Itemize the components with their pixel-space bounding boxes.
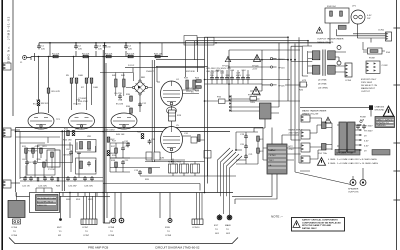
capacitor C29 bbox=[90, 176, 94, 181]
label right of box A lower bbox=[289, 146, 295, 151]
resistor R35 bbox=[126, 94, 132, 101]
svg-text:785V: 785V bbox=[250, 102, 256, 104]
svg-text:C31: C31 bbox=[184, 133, 189, 135]
svg-text:R11: R11 bbox=[22, 146, 27, 148]
safety note warning triangle bbox=[293, 221, 300, 228]
svg-text:22U: 22U bbox=[210, 75, 214, 77]
output transformer T1 bbox=[312, 50, 335, 76]
svg-text:MAINS INPUT: MAINS INPUT bbox=[361, 87, 376, 90]
svg-text:FS2 T500MA: FS2 T500MA bbox=[248, 94, 261, 97]
svg-text:C11: C11 bbox=[125, 160, 130, 162]
svg-text:R17: R17 bbox=[111, 146, 116, 148]
svg-text:V1A: V1A bbox=[36, 99, 41, 102]
svg-text:C6 22N: C6 22N bbox=[28, 162, 36, 164]
warning triangle OT bbox=[316, 27, 322, 33]
resistor R20 bbox=[145, 168, 151, 181]
outline box bus right bbox=[198, 37, 215, 45]
svg-text:FSW: FSW bbox=[165, 227, 171, 229]
svg-text:22N: 22N bbox=[160, 158, 164, 160]
electrolytic chain C20 bbox=[240, 144, 248, 149]
capacitor C28 bbox=[83, 176, 87, 181]
bottom brace bbox=[9, 238, 238, 244]
wire fuse feed vertical bbox=[329, 23, 331, 43]
resistor R25 bbox=[195, 86, 201, 93]
connector below hatched box bbox=[13, 219, 21, 224]
wire transformer primary feeds bbox=[310, 118, 322, 159]
svg-text:DWG No. : JTMD-61-02: DWG No. : JTMD-61-02 bbox=[7, 16, 11, 63]
wire cap stubs bbox=[212, 70, 248, 84]
svg-text:100K: 100K bbox=[78, 75, 84, 77]
resistor R39 bbox=[198, 135, 201, 142]
tube V1 ECC83 bbox=[28, 104, 54, 130]
svg-text:8 OHM : 1 x 8 OHM LOAD OR 2 x: 8 OHM : 1 x 8 OHM LOAD OR 2 x 16 OHM LOA… bbox=[328, 162, 379, 165]
tube V4 EL34 bbox=[161, 79, 183, 106]
svg-text:CON3: CON3 bbox=[186, 88, 193, 90]
svg-text:C20: C20 bbox=[240, 144, 245, 146]
svg-text:OUTPUT TRANSFORMER: OUTPUT TRANSFORMER bbox=[317, 38, 344, 41]
wire tube V5 bottom bbox=[160, 153, 185, 161]
warning triangle D bbox=[383, 106, 394, 116]
capacitor C17 bbox=[225, 75, 230, 81]
label rows stage2 bbox=[56, 98, 88, 121]
svg-text:TO: TO bbox=[226, 229, 229, 231]
connector CON5 bbox=[345, 63, 352, 82]
capacitor C4b on x105 bbox=[103, 44, 112, 49]
wire bus y56.5 bbox=[31, 56, 168, 58]
svg-text:22N: 22N bbox=[37, 159, 41, 161]
wire cathode bus y127.5 bbox=[16, 127, 264, 129]
capacitor C11 bbox=[121, 160, 129, 165]
capacitor C19a bbox=[236, 73, 242, 81]
wire rail y79.5 bbox=[205, 79, 291, 81]
svg-text:100K: 100K bbox=[93, 87, 99, 89]
node MV bbox=[57, 196, 62, 237]
wire from box B right bbox=[271, 43, 279, 114]
hatched box module 2 bbox=[30, 193, 60, 213]
fuse label FS1 bbox=[318, 152, 327, 155]
mid components cluster bbox=[107, 137, 115, 142]
V5 pin labels bbox=[183, 133, 192, 136]
svg-text:CHASSIS: CHASSIS bbox=[375, 106, 385, 109]
svg-text:C4: C4 bbox=[128, 46, 132, 48]
svg-text:R2 10K: R2 10K bbox=[82, 54, 90, 56]
svg-text:+16V: +16V bbox=[252, 68, 258, 70]
wire pair x152.5 bbox=[152, 60, 154, 162]
svg-text:P1 1M: P1 1M bbox=[48, 169, 54, 171]
svg-text:BR1: BR1 bbox=[141, 77, 146, 79]
svg-text:CON7: CON7 bbox=[82, 227, 89, 229]
svg-text:C21: C21 bbox=[249, 154, 254, 156]
resistor R27 bbox=[37, 178, 39, 182]
test pin TP102 bbox=[270, 57, 285, 61]
dark text block left bbox=[335, 150, 360, 156]
svg-text:CON10: CON10 bbox=[192, 227, 200, 229]
svg-text:C28 22N: C28 22N bbox=[84, 186, 93, 188]
wire psu chain bbox=[236, 132, 258, 164]
warning triangle T2 bbox=[325, 117, 331, 123]
wire y72.5 bbox=[100, 66, 160, 82]
svg-text:C19: C19 bbox=[240, 134, 245, 136]
capacitor C4 on bus bbox=[124, 43, 132, 51]
svg-text:R20: R20 bbox=[145, 179, 150, 181]
wire bus y37.5 bbox=[205, 36, 289, 38]
svg-text:C8: C8 bbox=[66, 149, 70, 151]
svg-text:TO: TO bbox=[13, 231, 16, 233]
svg-text:RL1 RL2 RL3: RL1 RL2 RL3 bbox=[168, 162, 182, 164]
jumper box JP bbox=[368, 48, 391, 60]
wire transformer secondary pins bbox=[355, 124, 373, 153]
svg-text:C16: C16 bbox=[220, 73, 225, 75]
left edge connector CON C bbox=[3, 180, 20, 188]
svg-text:SW2: SW2 bbox=[66, 199, 72, 201]
svg-text:MAINS TRANSFORMER: MAINS TRANSFORMER bbox=[302, 110, 327, 113]
wire y183.5 bbox=[103, 184, 200, 191]
svg-text:22U: 22U bbox=[98, 48, 102, 50]
resistor R1 on y56 bus bbox=[52, 54, 60, 58]
hatched block D bbox=[375, 117, 395, 128]
jack J5 labels bbox=[214, 225, 220, 235]
svg-text:22U: 22U bbox=[242, 70, 246, 72]
bridge cross bbox=[136, 83, 145, 92]
primary coil P1 bbox=[322, 122, 340, 150]
svg-text:ECC83: ECC83 bbox=[116, 104, 124, 106]
capacitor C8 bbox=[66, 149, 73, 155]
dark text block right bbox=[372, 150, 390, 156]
svg-text:RATING ONLY: RATING ONLY bbox=[302, 227, 317, 230]
svg-text:C24 22N: C24 22N bbox=[38, 186, 47, 188]
svg-text:CON6: CON6 bbox=[11, 235, 18, 237]
wire stair from box A to jacks bbox=[232, 174, 277, 204]
resistor R11 bbox=[22, 146, 27, 153]
V4 socket ellipse bbox=[167, 107, 177, 114]
resistor R7 anode bbox=[81, 78, 88, 89]
V4 pin labels bbox=[183, 88, 200, 94]
resistor R18 bbox=[111, 160, 117, 167]
svg-text:450V: 450V bbox=[236, 75, 242, 77]
svg-text:R4 10K: R4 10K bbox=[127, 54, 135, 56]
label group near bridge bbox=[128, 65, 195, 73]
impedance labels bbox=[302, 80, 328, 90]
resistor R36 bbox=[126, 106, 132, 113]
capacitor C7 bbox=[33, 159, 41, 165]
outline box bus left bbox=[184, 36, 197, 46]
svg-text:V1B: V1B bbox=[76, 100, 81, 102]
svg-text:C12: C12 bbox=[142, 103, 147, 105]
svg-text:CON8: CON8 bbox=[108, 227, 115, 229]
svg-text:(8 OHM): (8 OHM) bbox=[318, 84, 327, 86]
resistor R15 bbox=[64, 129, 69, 136]
svg-text:WITH THE SAME TYPE AND: WITH THE SAME TYPE AND bbox=[302, 224, 332, 227]
labels CON6 bbox=[11, 227, 18, 237]
connector column x231 bbox=[230, 95, 232, 112]
capacitor C13 bbox=[134, 170, 142, 175]
svg-text:FUSE: FUSE bbox=[369, 58, 375, 60]
capacitor C24 bbox=[43, 176, 47, 181]
svg-text:R28: R28 bbox=[56, 186, 61, 188]
switch box SW1 bbox=[76, 140, 97, 153]
svg-text:CON9: CON9 bbox=[165, 235, 172, 237]
tube V5 EL34 bbox=[161, 125, 183, 153]
mains transformer T2 core bbox=[339, 122, 355, 152]
bias triangle TP103 bbox=[222, 56, 231, 67]
wire row y196.3 bbox=[55, 195, 110, 197]
svg-text:C3: C3 bbox=[98, 46, 102, 48]
group box tone stack bbox=[27, 149, 55, 175]
svg-text:CHASSIS: CHASSIS bbox=[376, 124, 386, 127]
wire feedback loop left bbox=[20, 132, 110, 180]
svg-text:22U: 22U bbox=[128, 48, 132, 50]
wire vertical x105 main dropper bbox=[104, 43, 106, 224]
svg-text:CON1: CON1 bbox=[378, 30, 385, 32]
wire vertical x38 bbox=[38, 57, 40, 114]
wire drops to bottom connector row bbox=[58, 193, 170, 219]
capacitor C15 bbox=[215, 70, 221, 81]
capacitor C12 below bridge bbox=[138, 102, 147, 107]
wire bus y131.5 bbox=[16, 131, 231, 133]
svg-text:R22: R22 bbox=[260, 151, 265, 153]
svg-text:250V: 250V bbox=[269, 160, 275, 162]
bridge rectifier BR1 bbox=[132, 77, 147, 95]
svg-text:R35: R35 bbox=[126, 94, 131, 96]
resistor R16 bbox=[72, 129, 79, 136]
svg-text:M2: M2 bbox=[58, 235, 62, 237]
svg-text:4AB3C1B: 4AB3C1B bbox=[37, 204, 47, 207]
svg-text:R15: R15 bbox=[64, 129, 69, 131]
capacitor C21a bbox=[246, 75, 251, 81]
svg-text:HT3: HT3 bbox=[302, 80, 307, 82]
svg-text:(4 OHM): (4 OHM) bbox=[318, 80, 327, 82]
svg-text:ECC83: ECC83 bbox=[33, 104, 41, 106]
svg-text:4 OHM : 1 x 4 OHM LOAD OR 2 x: 4 OHM : 1 x 4 OHM LOAD OR 2 x 8 OHM LOAD… bbox=[328, 158, 377, 161]
capacitor C10 bbox=[121, 146, 129, 151]
svg-text:PIN 5: PIN 5 bbox=[186, 91, 192, 93]
resistor R14 bbox=[43, 160, 51, 167]
svg-text:R1 10K: R1 10K bbox=[52, 54, 60, 56]
svg-text:SAFETY EARTH: SAFETY EARTH bbox=[376, 118, 393, 121]
svg-text:FILTER: FILTER bbox=[269, 155, 277, 157]
svg-text:6.3V: 6.3V bbox=[364, 146, 369, 148]
test pin TP104 bbox=[270, 66, 285, 70]
svg-text:R3 10K: R3 10K bbox=[105, 54, 113, 56]
svg-text:22U: 22U bbox=[41, 48, 45, 50]
grid resistor row boxes bbox=[169, 164, 178, 173]
svg-text:FS1 T1A: FS1 T1A bbox=[318, 152, 327, 155]
svg-text:PRE AMP PCB: PRE AMP PCB bbox=[88, 246, 108, 250]
wire y59.7 row bbox=[156, 60, 208, 67]
svg-text:HT 350V: HT 350V bbox=[364, 131, 373, 133]
svg-text:R9 1K5: R9 1K5 bbox=[41, 103, 49, 105]
svg-text:TO: TO bbox=[167, 231, 170, 233]
electrolytic chain C21 bbox=[244, 154, 253, 159]
resistor R4b on y56 bus bbox=[154, 43, 168, 58]
svg-text:FS6: FS6 bbox=[386, 52, 391, 54]
fuse box HT bbox=[325, 6, 349, 23]
label mains transformer bbox=[302, 110, 327, 116]
resistor R22 bbox=[257, 148, 265, 153]
svg-text:FS5: FS5 bbox=[217, 97, 222, 99]
capacitor C18 bbox=[230, 70, 235, 81]
svg-text:TO: TO bbox=[85, 231, 88, 233]
wire y167 mid bbox=[110, 158, 236, 176]
svg-text:EXPORT ONLY: EXPORT ONLY bbox=[361, 79, 377, 81]
jack SK3 bbox=[350, 176, 356, 186]
junction node bbox=[235, 149, 237, 151]
wire vertical x73.5 bbox=[73, 57, 75, 79]
label from mains bbox=[360, 117, 366, 122]
resistor R21 bbox=[257, 136, 265, 141]
hatched box A mains filter bbox=[267, 144, 287, 174]
svg-text:(16 OHM): (16 OHM) bbox=[318, 88, 328, 90]
resistor R10 bbox=[47, 88, 60, 93]
capacitor C22 bbox=[23, 176, 27, 181]
wire vertical x88.5 bbox=[88, 57, 90, 79]
capacitor C3 on bus bbox=[94, 43, 102, 51]
jack CON8 b bbox=[108, 218, 124, 237]
resistor R38 V4 screen bbox=[191, 80, 195, 94]
capacitor C27 bbox=[73, 176, 77, 181]
svg-text:GROUND: GROUND bbox=[375, 109, 385, 111]
svg-text:470V: 470V bbox=[289, 149, 295, 151]
svg-text:R5: R5 bbox=[66, 75, 70, 77]
resistor R8 anode bbox=[90, 78, 98, 89]
svg-text:2W: 2W bbox=[367, 18, 371, 20]
component block below fuse box bbox=[338, 25, 346, 29]
select components row bbox=[356, 120, 366, 129]
impedance jack circles bbox=[337, 46, 341, 66]
svg-text:R15 1K8: R15 1K8 bbox=[63, 140, 72, 142]
left edge connector CON A bbox=[3, 63, 11, 70]
svg-text:C22 1N: C22 1N bbox=[22, 186, 30, 188]
capacitor C14 bbox=[210, 73, 215, 81]
svg-text:C10: C10 bbox=[125, 146, 130, 148]
capacitor C26 bbox=[66, 176, 70, 181]
svg-text:R41: R41 bbox=[121, 75, 126, 77]
svg-text:FUSE: FUSE bbox=[360, 117, 366, 119]
junction dots buses bbox=[15, 36, 331, 193]
connector CON7 multi bbox=[17, 193, 98, 238]
resistor R3 on y56 bus bbox=[105, 54, 113, 58]
jack J6 labels bbox=[225, 224, 231, 235]
wire OT primary bracket bbox=[291, 41, 312, 76]
svg-text:230V 50HZ: 230V 50HZ bbox=[289, 132, 301, 134]
svg-text:R19: R19 bbox=[177, 115, 182, 117]
svg-text:C26 4N7: C26 4N7 bbox=[68, 186, 77, 188]
label right of box A bbox=[289, 129, 304, 135]
labels bottom parts row bbox=[22, 186, 93, 188]
safety note box bbox=[292, 218, 345, 232]
svg-text:C34 0.68U: C34 0.68U bbox=[104, 130, 115, 132]
resistor pair R40 R41 bbox=[112, 73, 126, 97]
jack labels bbox=[348, 188, 359, 194]
warning triangle export bbox=[317, 158, 325, 166]
svg-text:CON6: CON6 bbox=[11, 227, 18, 229]
svg-text:C18: C18 bbox=[230, 70, 235, 72]
wire verticals from HT bus bbox=[50, 43, 126, 57]
connector CON1 bbox=[378, 30, 392, 42]
svg-text:D1 D2: D1 D2 bbox=[128, 65, 135, 67]
pilot lamp LP1 bbox=[351, 6, 372, 25]
labels under rails bbox=[104, 130, 164, 160]
svg-text:R37 R38: R37 R38 bbox=[186, 71, 195, 73]
svg-text:COMPONENTS MUST BE REPLACED: COMPONENTS MUST BE REPLACED bbox=[302, 221, 341, 224]
wire psu verticals right bbox=[205, 37, 308, 172]
jack J6 bbox=[227, 214, 232, 220]
resistor R9 bbox=[37, 101, 49, 106]
jack footswitch bbox=[165, 219, 172, 238]
resistor R12 bbox=[32, 146, 40, 153]
svg-text:0V: 0V bbox=[364, 136, 367, 138]
svg-text:BONDED TO: BONDED TO bbox=[376, 122, 389, 124]
svg-text:TO: TO bbox=[110, 231, 113, 233]
capacitor C5 bbox=[114, 93, 122, 99]
wire HT bus y42.5 bbox=[39, 42, 330, 44]
svg-text:MAIN: MAIN bbox=[225, 224, 231, 227]
svg-text:R25: R25 bbox=[195, 91, 200, 93]
resistor R13 bbox=[40, 146, 48, 153]
svg-text:R24: R24 bbox=[195, 78, 200, 80]
wire psu rows bbox=[231, 99, 260, 111]
svg-text:TO: TO bbox=[215, 229, 218, 231]
svg-text:R36: R36 bbox=[126, 106, 131, 108]
svg-text:J1: J1 bbox=[20, 62, 23, 64]
wire pair x62.5 bbox=[62, 130, 64, 191]
capacitor C16 bbox=[220, 73, 225, 81]
tube V2 ECC83 bbox=[69, 104, 95, 130]
svg-text:ACCUTRONICS: ACCUTRONICS bbox=[37, 201, 54, 204]
wire tube1 connections bbox=[72, 83, 92, 110]
svg-text:R11 470K: R11 470K bbox=[28, 151, 38, 153]
group box switch bbox=[38, 145, 73, 163]
svg-text:SPEAKER FUSE: SPEAKER FUSE bbox=[336, 152, 353, 155]
svg-text:C13: C13 bbox=[134, 170, 139, 172]
tube V3 ECC83 bbox=[111, 104, 137, 130]
wire stair to bottom left bbox=[218, 148, 243, 214]
export note text bbox=[361, 79, 377, 93]
svg-text:R37: R37 bbox=[184, 78, 189, 80]
capacitor C25 bbox=[50, 176, 54, 181]
svg-text:CON8: CON8 bbox=[108, 235, 115, 237]
svg-text:MAINS: MAINS bbox=[269, 149, 276, 152]
zone tick marks right border bbox=[393, 28, 400, 200]
wire rows to CON1 bbox=[337, 29, 386, 42]
svg-text:SK2: SK2 bbox=[226, 233, 231, 235]
wire bus y40.7 bbox=[185, 40, 308, 42]
jack J5 bbox=[217, 214, 222, 220]
wire rail y84 bbox=[205, 83, 263, 85]
svg-text:RV3: RV3 bbox=[76, 199, 81, 201]
svg-text:CON7: CON7 bbox=[83, 235, 90, 237]
resistor R6 anode bbox=[75, 75, 83, 83]
svg-text:MV2: MV2 bbox=[57, 227, 62, 229]
svg-text:6.3V: 6.3V bbox=[364, 141, 369, 143]
resistor R4 on y56 bus bbox=[127, 54, 135, 58]
component box V5 right bbox=[191, 137, 205, 143]
svg-text:VR1: VR1 bbox=[87, 136, 92, 138]
pot box P1 bbox=[47, 150, 60, 171]
svg-text:LP1: LP1 bbox=[352, 6, 357, 8]
svg-text:DE SELECT ON: DE SELECT ON bbox=[361, 85, 377, 87]
connector CON2 bbox=[366, 61, 388, 73]
wire pair x103.5 bbox=[103, 50, 110, 223]
svg-text:C1: C1 bbox=[41, 46, 45, 48]
capacitor C23 bbox=[29, 176, 33, 181]
labels mid parts bbox=[28, 136, 117, 164]
svg-text:REVERB MODULE: REVERB MODULE bbox=[37, 198, 57, 200]
border right line bbox=[396, 0, 398, 250]
cathode resistor R19 between tubes bbox=[169, 110, 182, 121]
svg-text:R45 10K: R45 10K bbox=[116, 134, 125, 136]
connector column left of transformer bbox=[301, 115, 310, 163]
